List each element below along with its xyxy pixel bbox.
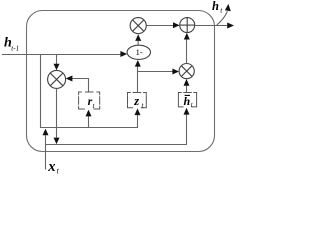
svg-text:t: t xyxy=(220,5,223,14)
svg-text:t: t xyxy=(191,101,194,109)
svg-text:x: x xyxy=(47,159,55,175)
svg-text:t: t xyxy=(142,102,145,110)
svg-text:1-: 1- xyxy=(136,47,143,57)
svg-text:z: z xyxy=(133,94,139,108)
svg-text:t-1: t-1 xyxy=(11,44,19,52)
svg-text:h: h xyxy=(212,0,219,13)
svg-text:t: t xyxy=(57,167,60,176)
